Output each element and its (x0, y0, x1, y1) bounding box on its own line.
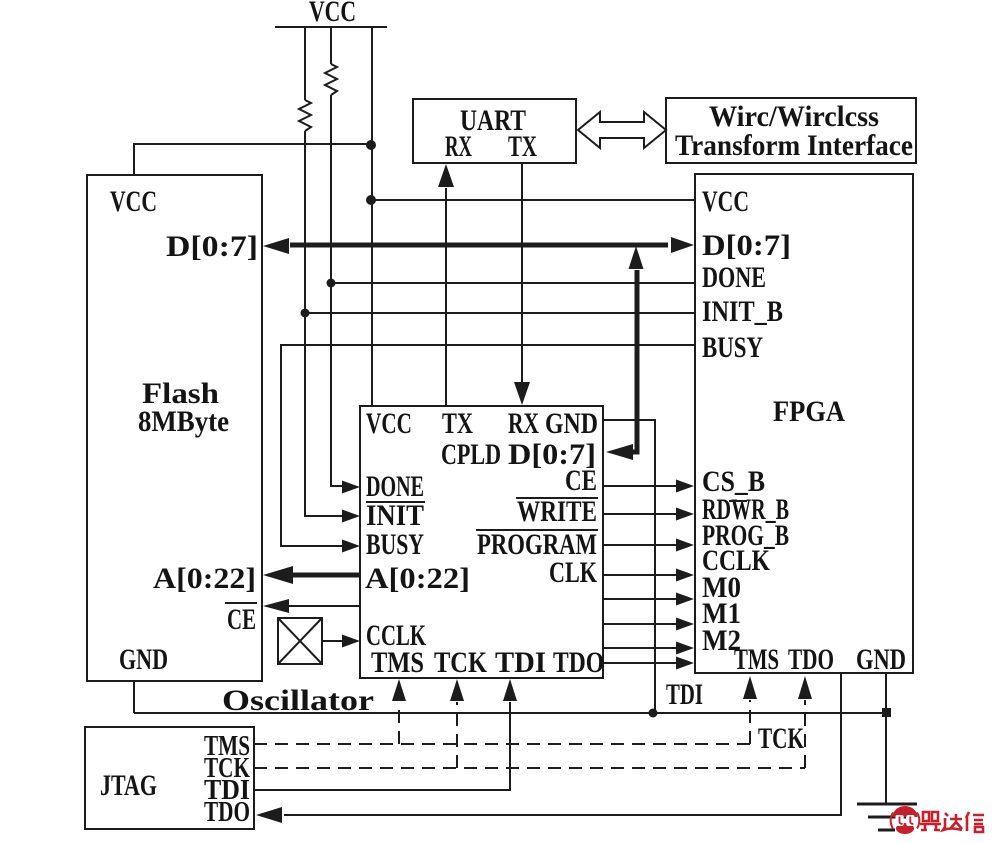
wire R1 down to CPLD INIT pin (305, 131, 342, 516)
ground rail (134, 712, 886, 714)
A[0:22] address bus (thick) (290, 573, 360, 578)
junction VCC to FPGA (366, 195, 376, 205)
FPGA CS_B pin label (702, 465, 765, 498)
watermark text ding (920, 812, 941, 830)
CPLD BUSY pin label (366, 528, 424, 561)
FPGA BUSY pin label (702, 331, 763, 364)
wire TCK branch to FPGA dashed (804, 700, 806, 768)
wire CE CPLD to FPGA CS_B (603, 485, 676, 487)
svg-text:A[0:22]: A[0:22] (153, 562, 256, 595)
CPLD A[0:22] pin label (365, 562, 470, 595)
wire INIT_B net (FPGA INIT_B) (305, 312, 695, 314)
D bus branch to CPLD (thick vertical) (625, 270, 637, 452)
FPGA M1 pin label (702, 597, 741, 630)
wire R2 down to CPLD DONE pin (331, 95, 342, 486)
JTAG name label (100, 769, 157, 802)
svg-text:FPGA: FPGA (773, 395, 845, 428)
wire M1 (603, 623, 676, 625)
svg-text:TDI: TDI (495, 646, 546, 679)
wire FPGA GND down (885, 673, 887, 804)
Flash size label 8MByte (138, 405, 229, 438)
FPGA INIT_B pin label (702, 295, 783, 328)
svg-text:CE: CE (227, 603, 256, 636)
junction CPLD GND at rail (649, 709, 658, 718)
watermark text da (943, 813, 962, 830)
arrowhead CPLD TCK up (450, 679, 464, 701)
svg-text:VCC: VCC (110, 185, 157, 218)
FPGA GND pin label (856, 643, 906, 676)
D bus branch arrowhead into CPLD D[0:7] (606, 444, 633, 460)
svg-text:RX: RX (508, 407, 539, 440)
svg-text:TDI: TDI (666, 678, 703, 711)
JTAG TCK pin label (204, 753, 250, 784)
wire CLK CPLD to FPGA CCLK (603, 574, 676, 576)
CPLD INIT pin label (active low) (366, 499, 425, 532)
junction VCC to Flash (366, 140, 376, 150)
Wirc/Wirclcss label (709, 100, 879, 133)
CPLD TMS pin label (371, 646, 424, 679)
arrowhead FPGA RDWR_B (676, 508, 694, 521)
svg-text:TMS: TMS (371, 646, 424, 679)
arrowhead UART RX up (438, 164, 454, 187)
svg-text:GND: GND (856, 643, 906, 676)
svg-text:Oscillator: Oscillator (222, 684, 374, 717)
watermark text xin (966, 812, 984, 832)
UART TX pin label (508, 130, 537, 163)
arrowhead FPGA CS_B (676, 480, 694, 493)
svg-text:8MByte: 8MByte (138, 405, 229, 438)
wire CPLD TDO to FPGA TDI (603, 662, 676, 664)
D bus branch arrowhead up (629, 246, 644, 269)
arrowhead CPLD BUSY (342, 540, 360, 553)
wire JTAG TCK dashed (254, 767, 805, 769)
wire Flash GND to ground rail (133, 681, 135, 713)
Flash memory box U3 (87, 175, 262, 681)
svg-text:BUSY: BUSY (366, 528, 424, 561)
CPLD PROGRAM pin label (active low) (476, 528, 598, 561)
bidirectional hollow arrow UART-Interface (578, 112, 666, 148)
CPLD TCK pin label (434, 646, 488, 679)
CPLD D[0:7] pin label (508, 438, 596, 471)
arrowhead CPLD CCLK (342, 635, 360, 648)
resistor R1 (INIT_B pull-up) (299, 100, 311, 131)
Flash VCC pin label (110, 185, 157, 218)
FPGA box U4 (695, 174, 913, 673)
A bus arrowhead into Flash (263, 566, 293, 584)
Oscillator label (222, 684, 374, 717)
arrowhead FPGA TMS up (743, 676, 757, 699)
wire TCK branch to CPLD TCK dashed (456, 702, 458, 768)
junction FPGA GND at rail (882, 708, 891, 717)
arrowhead FPGA PROG_B (676, 539, 694, 552)
arrowhead FPGA M0 (676, 593, 694, 606)
wire UART TX to CPLD RX (521, 163, 523, 382)
TDI net label (666, 678, 703, 711)
CPLD name label (441, 438, 501, 471)
CPLD CLK pin label (549, 556, 597, 589)
wire JTAG TDI to CPLD TDI (254, 702, 510, 790)
Flash CE pin label (active low) (225, 603, 257, 636)
wire VCC rail down to CPLD VCC (371, 27, 373, 406)
FPGA DONE pin label (702, 261, 766, 294)
CPLD TX pin label (442, 407, 473, 440)
svg-text:CLK: CLK (549, 556, 597, 589)
wire TMS branch to FPGA TMS dashed (749, 700, 751, 744)
wire WRITE CPLD to FPGA RDWR_B (603, 513, 676, 515)
svg-text:Transform Interface: Transform Interface (675, 129, 913, 162)
oscillator X1 (crystal symbol) (278, 618, 322, 664)
junction DONE pull-up (327, 279, 336, 288)
VCC rail (275, 26, 387, 28)
arrowhead CPLD INIT (342, 510, 360, 523)
svg-text:VCC: VCC (702, 185, 749, 218)
Transform Interface label (675, 129, 913, 162)
svg-text:BUSY: BUSY (702, 331, 763, 364)
FPGA name label (773, 395, 845, 428)
FPGA M2 pin label (702, 624, 741, 657)
resistor R2 (DONE pull-up) (325, 64, 337, 95)
svg-text:GND: GND (545, 407, 598, 440)
svg-text:TDO: TDO (553, 646, 604, 679)
FPGA VCC pin label (702, 185, 749, 218)
wire Flash CE to CPLD (266, 605, 360, 607)
svg-text:TX: TX (508, 130, 537, 163)
arrowhead CPLD DONE (342, 481, 360, 494)
wire VCC rail to resistor R2 (330, 27, 332, 64)
arrowhead CPLD TMS up (392, 679, 406, 701)
svg-text:TCK: TCK (434, 646, 488, 679)
Flash name label (142, 377, 219, 410)
wire VCC branch to FPGA VCC (372, 199, 695, 201)
wire oscillator output to CPLD CCLK (322, 640, 344, 642)
UART box U2 (413, 99, 576, 163)
arrowhead CPLD RX down (514, 382, 530, 405)
arrowhead FPGA M2 (676, 642, 694, 655)
svg-text:TMS: TMS (734, 643, 779, 676)
svg-text:INIT_B: INIT_B (702, 295, 783, 328)
CPLD VCC pin label (366, 407, 412, 440)
watermark logo emblem (891, 806, 920, 834)
Flash D[0:7] pin label (166, 230, 258, 263)
JTAG TMS pin label (204, 731, 250, 762)
wire BUSY net (281, 345, 695, 546)
svg-text:DONE: DONE (702, 261, 766, 294)
svg-text:RX: RX (445, 130, 472, 163)
JTAG connector box (85, 727, 254, 829)
svg-text:TDO: TDO (788, 643, 834, 676)
arrowhead FPGA CCLK (676, 569, 694, 582)
TCK net label (758, 722, 804, 755)
D bus arrowhead into Flash (263, 238, 289, 254)
wire TMS branch to CPLD TMS dashed (398, 702, 400, 744)
svg-text:D[0:7]: D[0:7] (702, 229, 791, 262)
FPGA RDWR_B pin label (W overlined) (702, 493, 789, 526)
svg-text:TX: TX (442, 407, 473, 440)
VCC label top (309, 0, 356, 28)
wire FPGA TDO to JTAG TDO (284, 673, 841, 815)
FPGA TMS pin label (734, 643, 779, 676)
wire JTAG TMS dashed (254, 743, 750, 745)
CPLD RX pin label (508, 407, 539, 440)
UART RX pin label (445, 130, 472, 163)
CPLD DONE pin label (366, 470, 424, 503)
CPLD GND pin label (545, 407, 598, 440)
svg-text:WRITE: WRITE (517, 495, 597, 528)
JTAG TDO pin label (204, 797, 250, 828)
wire VCC branch to Flash VCC (134, 144, 372, 175)
wire DONE net (FPGA DONE) (331, 282, 695, 284)
svg-text:JTAG: JTAG (100, 769, 157, 802)
arrowhead FPGA M1 (676, 618, 694, 631)
ground symbol (857, 804, 917, 830)
FPGA CCLK pin label (702, 544, 771, 577)
D bus arrowhead into FPGA (671, 237, 694, 253)
svg-text:VCC: VCC (309, 0, 356, 28)
FPGA M0 pin label (702, 571, 741, 604)
wire M2 (603, 647, 676, 649)
Wirc/Wirclcss Transform Interface box (666, 98, 916, 163)
CPLD CCLK pin label (366, 619, 426, 652)
CPLD WRITE pin label (active low) (516, 495, 598, 528)
D[0:7] data bus Flash-FPGA (thick) (290, 243, 668, 248)
svg-text:GND: GND (119, 643, 168, 676)
svg-text:A[0:22]: A[0:22] (365, 562, 470, 595)
wire M0 (603, 598, 676, 600)
svg-text:VCC: VCC (366, 407, 412, 440)
svg-text:TDO: TDO (204, 797, 250, 828)
arrowhead Flash CE (263, 599, 289, 613)
wire CPLD TX to UART RX (445, 188, 447, 406)
FPGA D[0:7] pin label (702, 229, 791, 262)
svg-text:D[0:7]: D[0:7] (166, 230, 258, 263)
junction INIT pull-up (301, 309, 310, 318)
wire PROGRAM CPLD to FPGA PROG_B (603, 544, 676, 546)
svg-text:TCK: TCK (758, 722, 804, 755)
wire VCC rail to resistor R1 (304, 27, 306, 100)
CPLD TDO pin label (553, 646, 604, 679)
svg-text:CPLD: CPLD (441, 438, 501, 471)
CPLD TDI pin label (495, 646, 546, 679)
CPLD CE pin label (565, 464, 597, 497)
wire CPLD GND to ground rail (603, 420, 655, 713)
FPGA PROG_B pin label (702, 519, 789, 552)
arrowhead FPGA TDO up (798, 676, 812, 699)
JTAG TDI pin label (204, 775, 250, 806)
arrowhead JTAG TDO (256, 807, 282, 823)
arrowhead FPGA TDI (676, 657, 694, 670)
CPLD box U1 (360, 406, 603, 678)
Flash A[0:22] pin label (153, 562, 256, 595)
FPGA TDO pin label (788, 643, 834, 676)
svg-text:CE: CE (565, 464, 597, 497)
arrowhead CPLD TDI up (503, 679, 517, 701)
Flash GND pin label (119, 643, 168, 676)
UART label (460, 104, 526, 137)
